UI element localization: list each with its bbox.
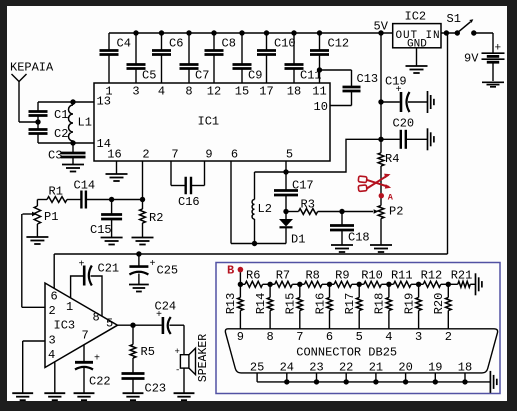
label R2 (149, 211, 163, 225)
pin 3 number (132, 85, 139, 99)
capacitor C21 (electrolytic) (71, 266, 102, 317)
wire (320, 69, 352, 71)
pin 14 number (97, 137, 111, 151)
capacitor C24 (electrolytic) (163, 317, 171, 334)
capacitor C2 (29, 130, 48, 144)
capacitor C3 (61, 143, 86, 157)
capacitor C4 (pin 1 decoupling) (100, 33, 119, 83)
svg-text:C5: C5 (142, 69, 156, 83)
capacitor C25 (electrolytic) (129, 254, 148, 284)
svg-text:24: 24 (280, 361, 294, 375)
svg-text:23: 23 (309, 361, 323, 375)
pin 8 number (266, 330, 273, 344)
resistor R8 (300, 281, 330, 287)
wire pin 21 (375, 373, 377, 382)
label C17 (292, 179, 314, 193)
node C18 tap (339, 209, 344, 214)
wire (19, 121, 38, 123)
node bus tap C5 (133, 30, 138, 35)
svg-text:C10: C10 (274, 37, 296, 51)
svg-text:R3: R3 (301, 198, 315, 212)
svg-text:C21: C21 (98, 262, 120, 276)
svg-text:-: - (175, 366, 180, 376)
pin 10 number (314, 100, 328, 114)
svg-text:17: 17 (259, 85, 273, 99)
svg-text:+: + (495, 43, 502, 55)
label C10 (274, 37, 296, 51)
svg-text:16: 16 (107, 148, 121, 162)
capacitor C19 (electrolytic) (381, 92, 428, 112)
pin 25 number (250, 361, 264, 375)
label R13 (224, 293, 238, 315)
wire pin 22 (345, 373, 347, 382)
wire (38, 142, 94, 144)
scissors (cut mark) (358, 174, 391, 192)
svg-text:C14: C14 (74, 179, 96, 193)
wire pin 23 (316, 373, 318, 382)
svg-text:C18: C18 (348, 231, 370, 245)
svg-text:C16: C16 (178, 195, 200, 209)
wire P1 wiper to IC3 (22, 214, 45, 307)
potentiometer P1 (23, 200, 41, 225)
node rail junction (433, 379, 438, 384)
wire IC1 pin9 (191, 161, 205, 186)
svg-text:C24: C24 (155, 300, 177, 314)
label C3 (48, 149, 62, 163)
label C22 (89, 375, 111, 389)
svg-text:IC3: IC3 (54, 319, 76, 333)
svg-text:D1: D1 (291, 233, 305, 247)
wire IC1 pin6 (230, 161, 232, 244)
capacitor C6 (pin 4 decoupling) (152, 33, 171, 83)
node bus tap C10 (264, 30, 269, 35)
svg-text:3: 3 (415, 330, 422, 344)
label C13 (357, 72, 379, 86)
svg-text:C6: C6 (169, 37, 183, 51)
label R5 (141, 345, 155, 359)
node bus tap C6 (159, 30, 164, 35)
pin 4 number (158, 85, 165, 99)
svg-text:22: 22 (339, 361, 353, 375)
wire IC3 pin4 (54, 362, 56, 393)
label C25 polarity + (150, 259, 156, 270)
svg-text:C19: C19 (385, 75, 407, 89)
node chain junction R13 (238, 282, 243, 287)
wire pin10 (330, 105, 352, 107)
pin 1 number (105, 85, 112, 99)
label battery + (495, 43, 502, 55)
label R1 (49, 185, 63, 199)
ground for C23 (123, 379, 144, 401)
wire IC1 pin7 (171, 161, 186, 186)
pin 11 number (312, 85, 326, 99)
svg-text:R12: R12 (421, 269, 443, 283)
node bus tap C11 (291, 30, 296, 35)
node rail junction (403, 379, 408, 384)
ground for C25 (129, 285, 149, 292)
svg-text:6: 6 (231, 148, 238, 162)
capacitor C11 (pin 18 decoupling) (285, 33, 304, 83)
pin 9 number (237, 330, 244, 344)
capacitor C8 (pin 12 decoupling) (205, 33, 224, 83)
pin 18 number (287, 85, 301, 99)
svg-text:C20: C20 (393, 117, 415, 131)
resistor R10 (359, 281, 389, 287)
ground for P2 (370, 245, 392, 252)
resistor R5 (130, 325, 136, 358)
label C19 polarity + (396, 85, 402, 96)
wire IC3 output (118, 324, 162, 326)
label R19 (402, 293, 416, 315)
svg-text:R7: R7 (276, 269, 290, 283)
wire (170, 325, 185, 355)
node L2 bottom (252, 241, 257, 246)
speaker (180, 348, 195, 374)
antenna (12, 74, 27, 122)
ground for R2 (132, 223, 154, 245)
label S1 (447, 12, 461, 26)
svg-text:6: 6 (51, 290, 58, 304)
label R15 (284, 293, 298, 315)
resistor R13 (238, 284, 244, 329)
label R21 (451, 269, 473, 283)
capacitor C22 (electrolytic) (75, 345, 93, 393)
svg-text:3: 3 (49, 334, 56, 348)
svg-text:+: + (79, 260, 85, 271)
svg-text:6: 6 (326, 330, 333, 344)
wire (86, 199, 143, 201)
node chain junction R15 (297, 282, 302, 287)
pin 2 number (49, 304, 56, 318)
svg-text:L1: L1 (78, 116, 92, 130)
node pin11 tap (317, 67, 322, 72)
node chain junction R19 (416, 282, 421, 287)
node R3-D1 junction (283, 209, 288, 214)
svg-text:C3: C3 (48, 149, 62, 163)
svg-text:R9: R9 (335, 269, 349, 283)
label C7 (195, 69, 209, 83)
capacitor C9 (pin 15 decoupling) (233, 33, 252, 83)
capacitor C14 (81, 191, 86, 209)
battery 9V (482, 53, 505, 81)
ground for C15 (101, 219, 123, 245)
op-amp U3 (IC3) triangle (45, 283, 118, 368)
svg-text:C13: C13 (357, 72, 379, 86)
svg-text:R16: R16 (313, 293, 327, 315)
pin 12 number (207, 85, 221, 99)
svg-text:P2: P2 (389, 205, 403, 219)
svg-text:S1: S1 (447, 12, 461, 26)
wire bottom rail (231, 243, 286, 245)
label C14 (74, 179, 96, 193)
pin 7 number (296, 330, 303, 344)
label R8 (305, 269, 319, 283)
svg-text:4: 4 (385, 330, 392, 344)
label P2 (389, 205, 403, 219)
label R4 (385, 152, 399, 166)
resistor R14 (267, 284, 273, 329)
node rail junction (284, 379, 289, 384)
pin 4 number (48, 348, 55, 362)
svg-text:2: 2 (445, 330, 452, 344)
pin 19 number (428, 361, 442, 375)
pin 6 number (231, 148, 238, 162)
label CONNECTOR DB25 (296, 346, 397, 360)
node rail junction (344, 379, 349, 384)
ground for C22 (74, 393, 95, 400)
label R11 (391, 269, 413, 283)
resistor R19 (416, 284, 422, 329)
resistor R20 (446, 284, 452, 329)
ground for C19 (428, 91, 434, 113)
svg-text:15: 15 (235, 85, 249, 99)
inductor L1 (69, 102, 73, 143)
label IC3 (54, 319, 76, 333)
svg-text:19: 19 (428, 361, 442, 375)
svg-text:11: 11 (312, 85, 326, 99)
wire (380, 219, 382, 245)
svg-text:10: 10 (314, 100, 328, 114)
node rail junction (373, 379, 378, 384)
capacitor C15 (101, 200, 122, 220)
svg-text:4: 4 (158, 85, 165, 99)
resistor R1 (47, 197, 67, 203)
pin 18 number (458, 361, 472, 375)
svg-text:5V: 5V (374, 20, 389, 34)
wire pin 20 (405, 373, 407, 382)
capacitor C20 (381, 130, 428, 149)
pin 3 number (415, 330, 422, 344)
wire (67, 199, 81, 201)
svg-text:8: 8 (266, 330, 273, 344)
svg-text:L2: L2 (258, 202, 272, 216)
capacitor C13 (343, 70, 361, 106)
svg-text:3: 3 (132, 85, 139, 99)
label C15 (90, 223, 112, 237)
capacitor C1 (29, 102, 48, 116)
resistor R7 (270, 281, 300, 287)
label R17 (343, 293, 357, 315)
label C9 (248, 69, 262, 83)
wire to P2 wiper (342, 209, 378, 214)
pin 24 number (280, 361, 294, 375)
label C25 (157, 264, 179, 278)
wire IC2 IN (441, 32, 457, 34)
resistor R18 (386, 284, 392, 329)
label C1 (54, 108, 68, 122)
pin 7 number (82, 329, 89, 343)
svg-text:9: 9 (205, 148, 212, 162)
svg-text:R2: R2 (149, 211, 163, 225)
wire 9V feed to IC3 (54, 33, 447, 288)
svg-text:C15: C15 (90, 223, 112, 237)
pin 5 number (106, 317, 113, 331)
label P1 (44, 210, 58, 224)
label R16 (313, 293, 327, 315)
label L1 (78, 116, 92, 130)
svg-text:C7: C7 (195, 69, 209, 83)
label R6 (246, 269, 260, 283)
connector DB25 outline (225, 329, 497, 373)
pin 5 number (286, 148, 293, 162)
svg-text:R21: R21 (451, 269, 473, 283)
pin 4 number (385, 330, 392, 344)
label R7 (276, 269, 290, 283)
svg-text:C1: C1 (54, 108, 68, 122)
parallel port box (blue) (216, 263, 500, 394)
wire C20 node to pin5 node (286, 139, 381, 172)
pin 2 number (142, 148, 149, 162)
resistor R4 (378, 153, 384, 166)
wire pin 19 (434, 373, 436, 382)
node switch right contact (471, 30, 476, 35)
svg-text:+: + (175, 347, 180, 357)
pin 7 number (171, 148, 178, 162)
ground for C18 (331, 230, 353, 252)
switch S1 (459, 19, 474, 32)
label C2 (54, 127, 68, 141)
label C23 (145, 382, 167, 396)
ground for C3 (62, 157, 84, 172)
node bus tap C8 (211, 30, 216, 35)
label A (red) (388, 192, 394, 202)
wire IC1 pin5 (285, 161, 287, 172)
label IC2 (405, 10, 427, 24)
label OUT IN (396, 30, 441, 42)
svg-text:R11: R11 (391, 269, 413, 283)
label R14 (254, 293, 268, 315)
svg-text:18: 18 (287, 85, 301, 99)
capacitor C5 (pin 3 decoupling) (127, 33, 146, 83)
label speaker - (175, 366, 180, 376)
svg-text:IC1: IC1 (198, 115, 220, 129)
svg-text:R4: R4 (385, 152, 399, 166)
resistor R21 (448, 281, 475, 287)
ground for speaker (174, 393, 195, 400)
svg-text:8: 8 (185, 85, 192, 99)
svg-text:C12: C12 (328, 37, 350, 51)
svg-text:8: 8 (93, 311, 100, 325)
ground for R21 (476, 273, 482, 295)
resistor R15 (297, 284, 303, 329)
capacitor C17 (274, 172, 298, 195)
node bus tap C9 (239, 30, 244, 35)
resistor R16 (327, 284, 333, 329)
diode D1 (279, 212, 293, 244)
label C11 (300, 69, 322, 83)
svg-text:IC2: IC2 (405, 10, 427, 24)
svg-text:7: 7 (171, 148, 178, 162)
node 9V rail tap (444, 30, 449, 35)
ground for DB25 rail (490, 371, 496, 393)
ground for P1 (26, 224, 48, 244)
node C20 tap (378, 137, 383, 142)
ground pin4 (44, 393, 65, 400)
svg-text:R14: R14 (254, 293, 268, 315)
pin 2 number (445, 330, 452, 344)
IC U1 (IC1) body (94, 83, 330, 161)
svg-text:C17: C17 (292, 179, 314, 193)
svg-text:R19: R19 (402, 293, 416, 315)
resistor R3 (286, 209, 318, 215)
pin 5 number (356, 330, 363, 344)
node C19 tap (378, 99, 383, 104)
label SPEAKER (197, 334, 210, 382)
svg-text:21: 21 (369, 361, 383, 375)
node bus tap C7 (186, 30, 191, 35)
wire pin 18 (464, 373, 466, 382)
label 5V (374, 20, 389, 34)
svg-text:C22: C22 (89, 375, 111, 389)
svg-text:R5: R5 (141, 345, 155, 359)
label R9 (335, 269, 349, 283)
label C12 (328, 37, 350, 51)
pin 17 number (259, 85, 273, 99)
wire DB25 ground rail (257, 381, 490, 383)
wire (318, 211, 342, 213)
label C22 polarity + (94, 354, 100, 365)
pin 21 number (369, 361, 383, 375)
ground for battery (482, 82, 504, 87)
resistor R2 (140, 209, 146, 223)
svg-text:7: 7 (82, 329, 89, 343)
wire (37, 116, 39, 130)
ground pin3 (12, 393, 33, 400)
svg-text:CONNECTOR DB25: CONNECTOR DB25 (296, 346, 397, 360)
capacitor C12 (pin 11 decoupling) (310, 33, 329, 83)
antenna label KEPAIA (10, 61, 54, 75)
node rail junction (462, 379, 467, 384)
label GND (407, 39, 427, 51)
label C24 (155, 300, 177, 314)
inductor L2 (252, 172, 254, 244)
node A (red) (379, 193, 384, 198)
wire IC3 pin3 (23, 341, 45, 393)
pin 23 number (309, 361, 323, 375)
svg-text:9: 9 (237, 330, 244, 344)
svg-text:B: B (227, 263, 234, 277)
svg-text:+: + (150, 259, 156, 270)
label IC1 (198, 115, 220, 129)
svg-text:C9: C9 (248, 69, 262, 83)
svg-text:2: 2 (142, 148, 149, 162)
label C16 (178, 195, 200, 209)
svg-text:R10: R10 (361, 269, 383, 283)
node chain junction R17 (357, 282, 362, 287)
svg-text:25: 25 (250, 361, 264, 375)
label C24 polarity + (156, 310, 162, 321)
potentiometer P2 (378, 206, 384, 219)
label C21 (98, 262, 120, 276)
svg-text:R20: R20 (432, 293, 446, 315)
resistor R11 (389, 281, 419, 287)
svg-text:P1: P1 (44, 210, 58, 224)
node L1 top (70, 99, 75, 104)
label C19 (385, 75, 407, 89)
pin 8 number (185, 85, 192, 99)
node chain junction R16 (327, 282, 332, 287)
label C18 (348, 231, 370, 245)
capacitor C16 (186, 177, 191, 195)
pin 9 number (205, 148, 212, 162)
pin 8 number (93, 311, 100, 325)
capacitor C18 (330, 212, 354, 231)
wire (255, 171, 287, 173)
svg-text:SPEAKER: SPEAKER (197, 334, 210, 382)
wire pin 25 (256, 373, 258, 382)
label D1 (291, 233, 305, 247)
capacitor C10 (pin 17 decoupling) (257, 33, 276, 83)
